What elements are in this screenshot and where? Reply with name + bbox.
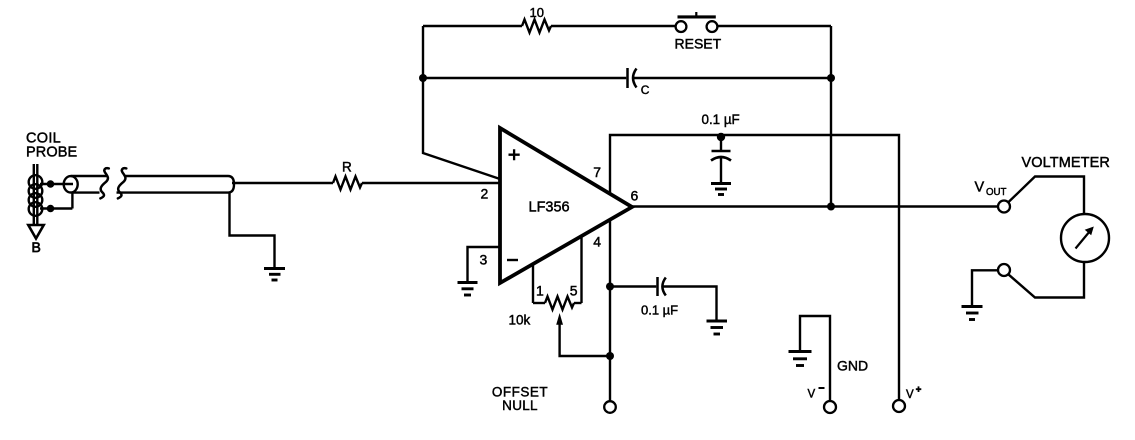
svg-text:V: V xyxy=(975,179,985,195)
svg-text:5: 5 xyxy=(570,282,578,298)
svg-text:4: 4 xyxy=(593,233,601,249)
svg-text:10k: 10k xyxy=(509,313,531,328)
svg-text:GND: GND xyxy=(837,357,868,373)
svg-text:V: V xyxy=(906,389,914,401)
svg-text:0.1 µF: 0.1 µF xyxy=(641,302,678,317)
svg-text:1: 1 xyxy=(536,282,544,298)
svg-text:R: R xyxy=(342,160,352,175)
svg-text:C: C xyxy=(641,83,650,97)
svg-text:0.1 µF: 0.1 µF xyxy=(702,112,740,127)
svg-text:V: V xyxy=(808,389,816,401)
svg-text:7: 7 xyxy=(593,164,601,180)
svg-text:PROBE: PROBE xyxy=(26,145,77,161)
svg-text:OUT: OUT xyxy=(986,187,1007,198)
svg-text:NULL: NULL xyxy=(502,398,538,413)
svg-text:3: 3 xyxy=(480,251,488,267)
svg-text:LF356: LF356 xyxy=(529,199,570,215)
svg-text:B: B xyxy=(32,239,41,255)
svg-text:2: 2 xyxy=(481,185,489,201)
svg-text:6: 6 xyxy=(631,187,639,203)
svg-text:VOLTMETER: VOLTMETER xyxy=(1022,155,1110,171)
svg-text:RESET: RESET xyxy=(675,35,722,51)
svg-text:10: 10 xyxy=(530,5,544,20)
